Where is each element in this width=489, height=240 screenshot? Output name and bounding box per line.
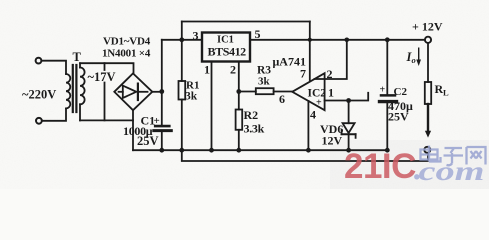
- svg-text:IC2: IC2: [308, 87, 327, 99]
- svg-text:7: 7: [300, 66, 306, 80]
- svg-text:VD1~VD4: VD1~VD4: [103, 36, 151, 48]
- svg-text:+: +: [380, 84, 386, 95]
- svg-text:3k: 3k: [185, 91, 198, 103]
- svg-text:~220V: ~220V: [22, 88, 56, 102]
- svg-text:4: 4: [310, 108, 316, 122]
- svg-text:3k: 3k: [258, 76, 271, 88]
- svg-text:2: 2: [327, 67, 333, 81]
- svg-text:25V: 25V: [137, 134, 159, 148]
- svg-text:L: L: [443, 88, 449, 98]
- svg-text:5: 5: [255, 27, 261, 41]
- svg-text:1: 1: [328, 86, 334, 100]
- svg-text:1N4001 ×4: 1N4001 ×4: [102, 48, 151, 60]
- svg-text:+ 12V: + 12V: [412, 20, 443, 34]
- svg-text:C2: C2: [394, 86, 408, 98]
- svg-text:R2: R2: [244, 108, 259, 122]
- svg-text:BTS412: BTS412: [208, 45, 247, 59]
- svg-text:12V: 12V: [322, 134, 343, 148]
- svg-text:3.3k: 3.3k: [244, 122, 265, 136]
- svg-text:T: T: [73, 50, 82, 64]
- svg-text:3: 3: [193, 28, 199, 42]
- svg-text:25V: 25V: [388, 110, 409, 124]
- svg-text:~17V: ~17V: [88, 70, 116, 84]
- svg-text:6: 6: [279, 92, 285, 106]
- svg-text:21IC: 21IC: [344, 147, 416, 186]
- svg-text:+: +: [154, 115, 160, 127]
- svg-text:1: 1: [204, 63, 210, 77]
- svg-text:o: o: [412, 55, 416, 65]
- svg-text:–: –: [315, 74, 322, 85]
- svg-text:2: 2: [230, 63, 236, 77]
